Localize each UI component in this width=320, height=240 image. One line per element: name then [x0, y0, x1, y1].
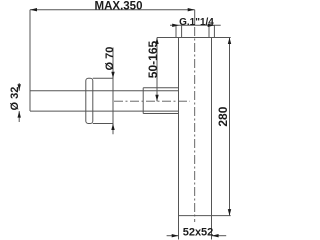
wire left extension / pipe end cap: [29, 10, 31, 111]
svg-text:50-165: 50-165: [146, 40, 160, 78]
dimension O70 line: [112, 48, 114, 135]
dimension 52x52 line left: [167, 235, 179, 237]
thread root left: [181, 25, 183, 37]
arrow O70 bottom: [111, 124, 114, 131]
pipe tube bottom edge: [30, 110, 179, 112]
dimension O32 line bottom: [18, 111, 20, 122]
svg-text:G.1"1/4: G.1"1/4: [179, 17, 214, 28]
svg-text:Ø 32: Ø 32: [9, 87, 21, 111]
arrow G left: [172, 24, 179, 27]
arrow O32 bottom: [18, 111, 21, 118]
centerline vertical body axis: [194, 27, 196, 222]
svg-text:Ø 70: Ø 70: [104, 47, 116, 71]
trap body left edge: [178, 38, 180, 240]
dimension MAX.350 line: [30, 9, 195, 11]
thread outer left: [175, 25, 177, 37]
trap body right edge: [211, 38, 213, 240]
centerline horizontal pipe axis: [114, 100, 190, 102]
arrow O70 top: [111, 72, 114, 79]
arrow 50-165 bottom: [155, 95, 158, 102]
arrow MAX.350 right: [188, 8, 195, 11]
svg-text:52x52: 52x52: [183, 227, 214, 239]
svg-text:280: 280: [216, 106, 230, 126]
dimension 50-165 line: [156, 38, 158, 102]
svg-text:MAX.350: MAX.350: [95, 1, 143, 13]
flange rosette: [86, 78, 93, 123]
arrow 50-165 top: [155, 38, 158, 45]
arrow O32 top: [18, 84, 21, 91]
dimension 280 line: [229, 38, 231, 216]
label G leader line: [170, 24, 221, 26]
thread outer right: [213, 25, 215, 37]
thread root right: [208, 25, 210, 37]
arrow 52x52 left: [172, 234, 179, 237]
wire right extension MAX.350: [194, 10, 196, 26]
trap body bottom line with extension: [179, 215, 231, 217]
arrow G right: [208, 24, 215, 27]
dimension 52x52 line right: [212, 235, 226, 237]
pipe tube top edge: [30, 90, 179, 92]
flange cover O70: [93, 78, 113, 123]
arrow MAX.350 left: [30, 8, 37, 11]
trap body top line with extensions: [157, 37, 231, 39]
arrow 280 bottom: [228, 209, 231, 216]
dimension O32 line top: [18, 83, 20, 91]
arrow 52x52 right: [212, 234, 219, 237]
arrow 280 top: [228, 38, 231, 45]
compression nut socket: [143, 88, 178, 114]
